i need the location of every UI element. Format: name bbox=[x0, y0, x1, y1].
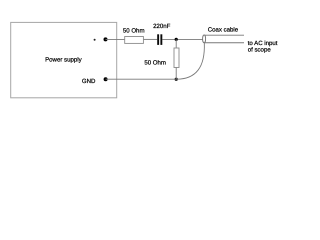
svg-text:50 Ohm: 50 Ohm bbox=[123, 28, 145, 35]
svg-text:of scope: of scope bbox=[248, 46, 272, 53]
svg-text:50 Ohm: 50 Ohm bbox=[144, 59, 166, 66]
svg-text:220nF: 220nF bbox=[153, 23, 171, 30]
svg-text:Coax cable: Coax cable bbox=[208, 26, 239, 33]
svg-text:Power supply: Power supply bbox=[45, 57, 83, 64]
svg-text:GND: GND bbox=[82, 78, 96, 85]
